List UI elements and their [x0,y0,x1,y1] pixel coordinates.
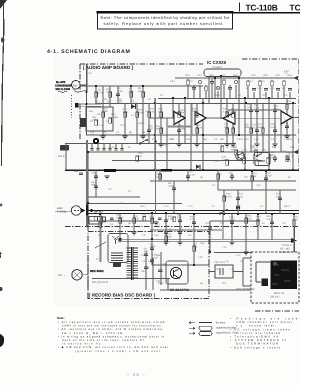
svg-text:C26: C26 [250,145,255,148]
svg-text:± 1 · sound level.: ± 1 · sound level. [236,325,276,328]
battery label bottom [270,292,285,298]
wire x66 drop [65,144,67,171]
audio amp board outline top-right [242,58,299,60]
svg-text:R33: R33 [272,146,277,149]
bias trap box [215,265,233,278]
oscillator transformer T1 [127,247,139,280]
resistor bodies field [95,92,296,251]
h bus y278 [92,278,170,280]
legend B+ bar [199,322,212,324]
wire trunk x100 [100,214,102,262]
component value labels [91,87,299,260]
board edge stub x88 [87,215,89,231]
bottom row extra parts [95,217,176,222]
svg-text:100P: 100P [163,144,169,147]
svg-text:4.7µ: 4.7µ [99,124,104,127]
scan blob a [1,37,5,42]
op-amp U1 [174,112,185,125]
vertical wires field [87,64,294,265]
voltage annotations [96,70,292,285]
shaded safety part 3 [113,262,121,267]
safety note box [97,11,234,29]
switch S2 [220,210,226,214]
scan page edge [1,0,3,166]
head feed diagonal [95,242,106,248]
legend arrow 3 [189,332,195,334]
h bus y221 [88,220,260,222]
rp head hatch [111,253,123,261]
svg-text:TC: TC [290,3,301,13]
svg-text:C41: C41 [141,254,146,257]
h bus y190 [218,189,296,191]
earphone lead wire [55,210,71,212]
notes right column [230,318,320,350]
shaded safety part 1 [60,145,69,151]
signal path thick gray v [191,104,193,136]
bus line y170 [65,169,299,171]
signal path thick gray h [168,126,192,128]
b+ feed arrowhead [291,238,297,243]
sub-box interior labels [89,110,149,127]
mid-left cap row [90,144,123,150]
wire trunk x87 [86,140,88,226]
svg-text:1S953: 1S953 [138,122,145,125]
bias switch box [254,153,270,166]
h bus y98 [158,98,296,100]
svg-text:– 23 –: – 23 – [127,372,146,377]
earphone sub box [89,217,102,225]
svg-text:50K: 50K [97,113,101,116]
rp head box [108,234,128,263]
bias trap cap [220,268,223,275]
bottom bus y230 [150,229,222,231]
capacitor bodies field [94,92,290,265]
svg-text:kΩ = 1000 Ω, MΩ = 1000 kΩ.: kΩ = 1000 Ω, MΩ = 1000 kΩ. [62,332,124,335]
h bus y78 [175,77,296,79]
svg-text:safety. Replace only with pa: safety. Replace only with part number sp… [104,21,224,26]
resistor R28 at 222 [218,143,224,152]
legend arrow 1 [189,322,195,324]
right band cluster labels [233,145,295,153]
signal arrow right 2 [293,150,298,154]
header divider tick [239,3,240,12]
scan blob d [0,287,2,291]
bias wiring [209,258,251,286]
svg-text:TC-110B: TC-110B [246,3,278,13]
battery block shaded [271,261,298,290]
osc board verticals [146,252,168,290]
svg-text:22K: 22K [120,124,124,127]
svg-text:C28: C28 [290,146,295,149]
legend arrow 2 [189,327,195,329]
scan blob e [0,334,4,347]
svg-text:Note:: Note: [57,316,65,320]
earphone jack symbol [71,206,85,216]
svg-text:R28: R28 [218,143,223,146]
signal arrow right 1 [293,76,298,80]
h bus y143 [65,143,236,145]
diode D3 [236,206,240,210]
audio amp board outline bottom [65,226,299,228]
battery feed wire [294,227,296,253]
h bus y86 [80,85,203,87]
rp head gap lines [112,236,119,244]
h bus y181 [150,180,296,182]
osc cap pair [144,267,162,272]
svg-text:J 2: J 2 [284,72,288,75]
svg-text:4-1. SCHEMATIC DIAGRAM: 4-1. SCHEMATIC DIAGRAM [47,49,131,55]
cap C2 dot [154,140,156,142]
battery wiring [256,262,270,282]
svg-text:dash on the side of the caps,: dash on the side of the caps, symbols RT [62,339,144,342]
condenser mic label [55,81,72,91]
h bus y160 [112,160,262,162]
cap C2 label [158,144,169,147]
svg-text:Note: The components identifi: Note: The components identified by shadi… [101,15,231,20]
earphone imp label [91,209,104,214]
svg-text:• Readings are taken with a: • Readings are taken with a [230,318,300,321]
condenser mic symbol [72,64,102,135]
ground symbols [101,136,290,255]
record mic jack symbol [72,270,88,280]
transistor Q3 oscillator [170,267,181,278]
audio amp board outline right [298,59,300,170]
header underline [233,12,301,13]
svg-text:VOM (20kΩ/V) volt meter,: VOM (20kΩ/V) volt meter, [236,321,294,324]
earphone jack label [57,207,66,213]
svg-text:4.7K: 4.7K [242,149,247,152]
earphone jack contact bar [86,205,88,216]
scan corner mark [0,0,7,9]
svg-text:DOS TERMINATOR: DOS TERMINATOR [236,343,278,346]
svg-text:B+ lines: B+ lines [216,322,226,325]
svg-text:• In wiring an aligned schema: • In wiring an aligned schematic, except… [58,335,165,338]
osc board labels [141,254,168,283]
svg-text:0.01: 0.01 [148,260,153,263]
h bus y110 [228,109,281,111]
IC CX026 outline [204,69,241,77]
op-amp U3 [223,112,235,124]
bus line y213 [86,212,299,214]
svg-text:C43: C43 [156,280,161,283]
svg-text:R52: R52 [156,254,161,257]
bus y170 thick segment 2 [161,169,172,172]
op-amp U4 [281,111,292,124]
caps left of trunk [74,170,83,174]
svg-text:adjustPart Ω : Gnd: adjustPart Ω : Gnd [216,332,238,335]
scan blob c [0,252,2,258]
svg-text:is paired with P1.: is paired with P1. [62,343,102,346]
battery label top [279,244,292,254]
diode D2 [196,165,200,169]
safety note text [101,15,231,26]
h bus y103 [95,103,296,105]
b+ feed line pair [118,239,292,242]
h bus y265 [152,264,210,266]
svg-text:• SYSTEM ANTENNA of: • SYSTEM ANTENNA of [230,339,286,342]
jack contact dot [93,138,99,144]
h bus y135 [86,134,296,136]
h bus y118 [150,117,299,120]
transistor Q1 [236,152,244,160]
svg-text:• ◆ CW and CCW, all curves tu: • ◆ CW and CCW, all curves turn to, AA-2… [58,346,168,349]
svg-text:• Tolerance/DMS ±4: • Tolerance/DMS ±4 [230,336,279,339]
bus line y210 [86,210,299,212]
svg-text:• DC8 voltage ± levels: • DC8 voltage ± levels [230,346,281,349]
upper right component cluster [187,79,292,98]
svg-text:R31: R31 [233,146,238,149]
switch S1 [140,140,146,144]
legend text [216,322,238,335]
scan blob b [0,204,2,207]
record board edge heavy segment [87,255,89,299]
svg-text:circuits are labeled: circuits are labeled [236,332,281,335]
svg-text:50WV or less are not indicated: 50WV or less are not indicated except fo… [62,325,162,328]
bottom row extra labels [109,214,161,226]
wire trunk x155 [155,98,157,213]
audio amp board outline top-left [80,63,203,65]
osc feed wire x223 [222,214,224,239]
h bus y252 [214,252,251,254]
record bias osc board outline [88,232,209,299]
oscillator box outline [166,261,188,284]
schematic tone overlay [55,56,300,306]
input sub-circuit box [86,107,113,131]
extra label rows [90,100,293,142]
op-amp U2 [195,112,206,125]
upper cluster labels [186,74,293,90]
shaded safety part 2 [80,118,86,127]
h bus y203 [88,203,182,205]
h bus y197 [88,196,140,198]
bus line y170 thick segment [104,169,116,172]
notes area dash remnant [255,310,299,312]
notes left column [57,316,168,353]
svg-text:15K: 15K [141,270,146,273]
svg-text:• All resistors are in ohms,: • All resistors are in ohms, 1/4 W unles… [58,328,163,331]
h bus y152 [88,151,296,153]
legend box 1 [199,326,212,330]
svg-text:(greater than ± 0.5dB) ± 5% an: (greater than ± 0.5dB) ± 5% and over [75,350,160,353]
h bus y290 [160,289,251,291]
svg-text:• All capacitors are in µF un: • All capacitors are in µF unless otherw… [58,321,166,324]
legend box 2 [199,331,212,335]
battery small cell [262,279,269,287]
battery box outline [251,252,299,303]
audio amp board outline left [79,64,81,140]
svg-text:• DC voltage items taken: • DC voltage items taken [230,328,291,331]
diode D1 [131,104,136,109]
